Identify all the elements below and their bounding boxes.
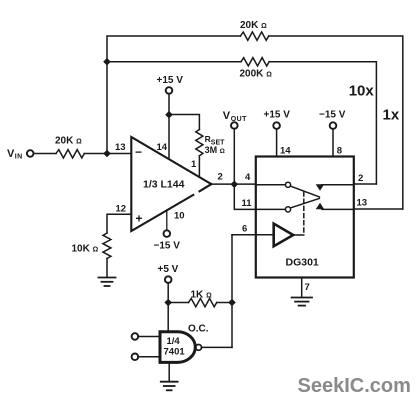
svg-text:1/4: 1/4 [167, 336, 181, 347]
gate input terminal circle bottom [132, 354, 139, 361]
VOUT terminal circle [231, 122, 238, 129]
node: input junction [103, 150, 111, 158]
svg-text:DG301: DG301 [286, 257, 319, 269]
DG301 box [256, 157, 354, 278]
wire input bottom [138, 356, 160, 358]
wire +15V down to pin14 [168, 94, 170, 158]
wire pin2 to 200K bus [354, 183, 377, 185]
+15V terminal circle (DG301) [273, 122, 280, 129]
svg-text:+15 V: +15 V [157, 75, 184, 86]
gate input terminal circle top [132, 333, 139, 340]
wire VIN to resistor [34, 153, 57, 155]
wire pin7 to ground [301, 278, 303, 297]
input terminal VIN circle [27, 150, 34, 157]
wire branch to RSET [169, 115, 199, 130]
wire -15V to pin8 [332, 129, 334, 157]
svg-text:−: − [135, 145, 142, 159]
wire input top [138, 336, 160, 338]
ground (gate) [161, 382, 178, 391]
wire VOUT down to output node [233, 129, 235, 185]
wire +15V to pin14 of DG301 [276, 129, 278, 157]
wire RSET to pin1 [198, 156, 200, 177]
switch contact circle pin11 [285, 207, 290, 212]
svg-text:12: 12 [116, 204, 127, 215]
buffer A1 triangle [274, 224, 294, 247]
svg-text:2: 2 [358, 173, 363, 184]
svg-text:1/3 L144: 1/3 L144 [143, 179, 185, 191]
svg-text:+5 V: +5 V [158, 264, 179, 275]
svg-text:13: 13 [115, 142, 126, 153]
resistor 10K vertical [103, 233, 111, 259]
svg-text:14: 14 [280, 146, 291, 157]
+5V terminal circle [165, 276, 172, 283]
node: 1K/control junction [228, 299, 236, 307]
svg-text:SeekIC.com: SeekIC.com [298, 375, 411, 397]
dashed control line [303, 192, 305, 235]
wire pin13 to 20K bus [354, 208, 403, 210]
ground (10K) [99, 278, 116, 287]
svg-text:13: 13 [357, 198, 368, 209]
wire op-amp output to DG301 pin4 [211, 183, 256, 185]
wire +5V node to 1K [168, 302, 188, 304]
switch arrow up (pin13) [316, 203, 325, 209]
NAND gate U2 1/4 7401 body [160, 332, 195, 363]
wire control bus vertical [231, 235, 233, 348]
switch contact circle pin4 [285, 182, 290, 187]
switch arrow down (pin2) [316, 184, 325, 191]
node: 200K tap on bus [103, 58, 111, 66]
ground (DG301) [292, 298, 312, 306]
wire pin2 contact line [322, 184, 354, 186]
wire left vertical feedback bus [107, 36, 241, 153]
wire pin13 contact line [322, 208, 354, 210]
wire pin6 [232, 234, 274, 236]
svg-text:−15 V: −15 V [154, 241, 181, 252]
-15V terminal circle (op-amp) [164, 230, 171, 237]
+15V terminal (op-amp) circle [166, 87, 173, 94]
wire buffer output [293, 234, 304, 236]
svg-text:O.C.: O.C. [188, 324, 209, 335]
svg-text:11: 11 [242, 198, 253, 209]
wire 1K to control bus [217, 302, 232, 304]
wire gate output [202, 346, 232, 348]
wire gate to ground [168, 362, 170, 380]
wire jog to pin11 [234, 184, 256, 209]
node: +5V/1K junction [164, 299, 172, 307]
wire pin4 inside to contact [256, 184, 286, 186]
wire 200K feedback left [107, 61, 241, 63]
node: +15V/RSET junction [165, 111, 173, 119]
gate output bubble [196, 345, 202, 351]
svg-text:10x: 10x [349, 83, 375, 100]
wire pin12 [107, 214, 131, 233]
svg-text:7401: 7401 [164, 347, 186, 358]
svg-text:1: 1 [191, 159, 197, 170]
op-amp U1 triangle 1/3 L144 [131, 137, 211, 231]
wire pin11 inside to contact [256, 208, 286, 210]
resistor R 20K (top feedback) [241, 32, 269, 40]
svg-text:OUT: OUT [231, 116, 247, 123]
svg-text:7: 7 [305, 282, 310, 293]
svg-text:6: 6 [242, 224, 247, 235]
wire input to op-amp pin13 [84, 153, 131, 155]
resistor 1K [189, 298, 217, 306]
resistor 20K input [56, 150, 84, 158]
svg-text:IN: IN [15, 153, 23, 160]
svg-text:1x: 1x [383, 107, 400, 124]
svg-text:8: 8 [337, 146, 342, 157]
svg-text:14: 14 [157, 142, 168, 153]
svg-text:V: V [7, 148, 15, 160]
svg-text:4: 4 [245, 172, 251, 183]
svg-text:−15 V: −15 V [319, 110, 346, 121]
resistor R 200K (second feedback) [241, 58, 269, 66]
svg-text:10: 10 [174, 211, 185, 222]
switch arm from pin4 contact [291, 186, 320, 197]
-15V terminal circle (DG301) [330, 122, 337, 129]
node: output/VOUT junction [231, 181, 239, 189]
wire 200K feedback right [269, 62, 376, 184]
wire +5V down to gate [167, 283, 169, 332]
pin10 wire to -15V [166, 210, 168, 230]
svg-text:+15 V: +15 V [264, 110, 291, 121]
svg-text:+: + [136, 212, 143, 226]
wire 10K to ground [106, 259, 108, 277]
wire top feedback right [269, 36, 403, 209]
switch arm from pin11 contact [291, 198, 320, 207]
svg-text:V: V [223, 110, 231, 122]
resistor RSET 3M vertical [196, 130, 203, 156]
svg-text:2: 2 [218, 172, 223, 183]
